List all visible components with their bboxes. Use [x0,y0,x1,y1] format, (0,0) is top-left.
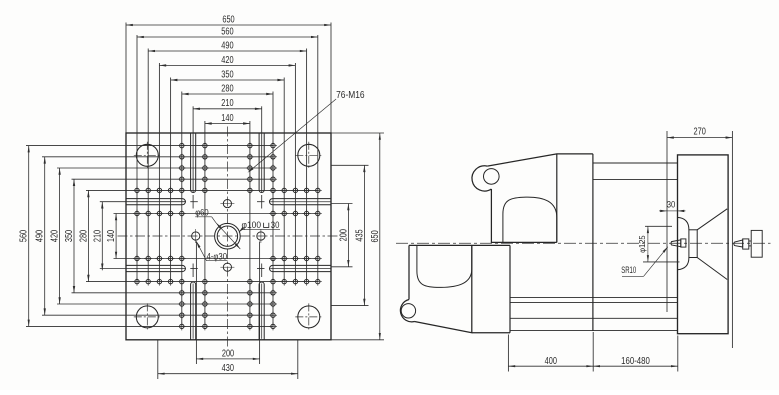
upper tie-bar lines [593,163,678,180]
injection nozzle assembly [734,230,762,257]
horizontal T-slot left upper [126,199,198,205]
svg-text:140: 140 [106,230,117,243]
horizontal T-slot right lower [257,265,331,271]
left dimension 420 [50,168,61,304]
left dimension 140 [106,214,117,259]
hole dia30 left [192,229,200,243]
lower carriage block right edge [509,245,511,332]
svg-text:4-φ30: 4-φ30 [207,251,228,261]
svg-text:SR10: SR10 [621,265,636,275]
hole dia30 bottom [220,263,234,271]
label 4-dia30 with leader [196,241,227,261]
svg-text:φ60: φ60 [195,207,209,217]
svg-text:280: 280 [221,83,234,94]
vertical T-slot top left [191,133,196,209]
dimension 30 nozzle protrusion [659,200,686,213]
right dimension extension lines [331,133,384,340]
left dimension 210 [92,202,103,271]
lower carriage outline [400,245,510,332]
label dia100 counterbore 30 [239,220,281,233]
svg-text:560: 560 [19,230,30,243]
svg-text:30: 30 [667,200,676,210]
svg-text:650: 650 [370,230,381,243]
upper carriage outline [472,154,593,243]
bottom dimension 200 [196,348,259,360]
76 M16 bolt holes grid [133,142,322,331]
hole dia30 top [220,200,234,208]
svg-text:270: 270 [694,126,707,137]
top dimension 350 [171,69,285,81]
svg-text:490: 490 [35,230,46,243]
svg-text:φ125: φ125 [638,235,647,253]
label dia60 with leader [195,207,216,222]
upper carriage window cutout [503,197,557,242]
top dimension 280 [182,83,273,95]
svg-text:30: 30 [271,220,280,230]
bottom dimension extension lines side view [508,332,677,372]
tie-bar hole top-left [134,142,161,169]
right dimension 650 [370,133,381,340]
horizontal T-slot right upper [257,199,331,205]
top dimension 210 [193,98,262,110]
bottom dimension 430 [158,363,298,375]
lower cylinder rail lines [510,298,678,331]
tie-bar hole top-right [295,142,322,169]
svg-text:76-M16: 76-M16 [336,90,365,101]
bottom dimension extension lines [158,242,298,380]
side view horizontal centerline [396,242,771,244]
svg-text:140: 140 [221,113,234,124]
dimension 270 [667,126,732,138]
left dimension 350 [64,179,75,293]
dimension 400 [508,356,593,367]
platen right reference line [731,131,733,348]
svg-text:210: 210 [92,230,103,243]
svg-text:650: 650 [222,14,235,25]
platen plate outline (front view) [126,133,331,340]
svg-text:280: 280 [78,230,89,243]
left dimension 560 [19,146,30,327]
right dimension 435 [354,165,365,305]
left dimension extension lines [26,146,318,327]
vertical centerline of platen [226,127,228,347]
top dimension extension lines [126,23,331,327]
svg-text:420: 420 [221,55,234,66]
svg-text:350: 350 [221,69,234,80]
left dimension 490 [35,157,46,315]
top dimension 650 [126,14,331,26]
dimension 160-480 [593,356,678,367]
lower carriage window cutout [417,245,472,287]
top dimension 490 [148,40,306,52]
svg-text:400: 400 [545,356,558,367]
hole dia30 right [257,229,265,243]
horizontal centerline of platen [118,235,339,237]
vertical T-slot bottom right [259,264,264,340]
diameter leader line through bore [216,223,240,249]
label SR10 with leader [621,247,668,276]
label 76-M16 with leader [248,90,365,173]
svg-text:200: 200 [338,229,349,242]
nozzle tip reference line [666,131,668,312]
horizontal T-slot left lower [126,265,198,271]
stationary platen rectangle [678,155,729,334]
upper carriage platen block [557,154,593,331]
platen locating recess bell [678,217,689,269]
central locating bore circles [215,223,241,249]
svg-text:490: 490 [221,40,234,51]
machine nozzle tip [671,239,686,247]
svg-text:435: 435 [354,229,365,242]
svg-text:160-480: 160-480 [621,356,650,367]
svg-text:φ100: φ100 [242,220,262,230]
platen through-cone lines [697,209,727,280]
top dimension 420 [159,55,295,67]
svg-text:420: 420 [50,230,61,243]
lower carriage pin hole [401,304,415,318]
top dimension 560 [137,26,318,38]
svg-text:350: 350 [64,230,75,243]
svg-text:560: 560 [221,26,234,37]
vertical T-slot bottom left [191,264,196,340]
svg-text:200: 200 [222,348,235,359]
upper carriage pin hole [484,169,500,185]
sprue bushing boss [689,230,697,258]
right dimension 200 [338,204,349,267]
svg-text:430: 430 [222,363,235,374]
dimension dia125 [638,226,679,262]
vertical T-slot top right [259,133,264,209]
svg-text:210: 210 [221,98,234,109]
tie-bar hole bottom-right [295,303,322,330]
top dimension 140 [205,113,250,125]
left dimension 280 [78,190,89,281]
tie-bar hole bottom-left [134,303,161,330]
